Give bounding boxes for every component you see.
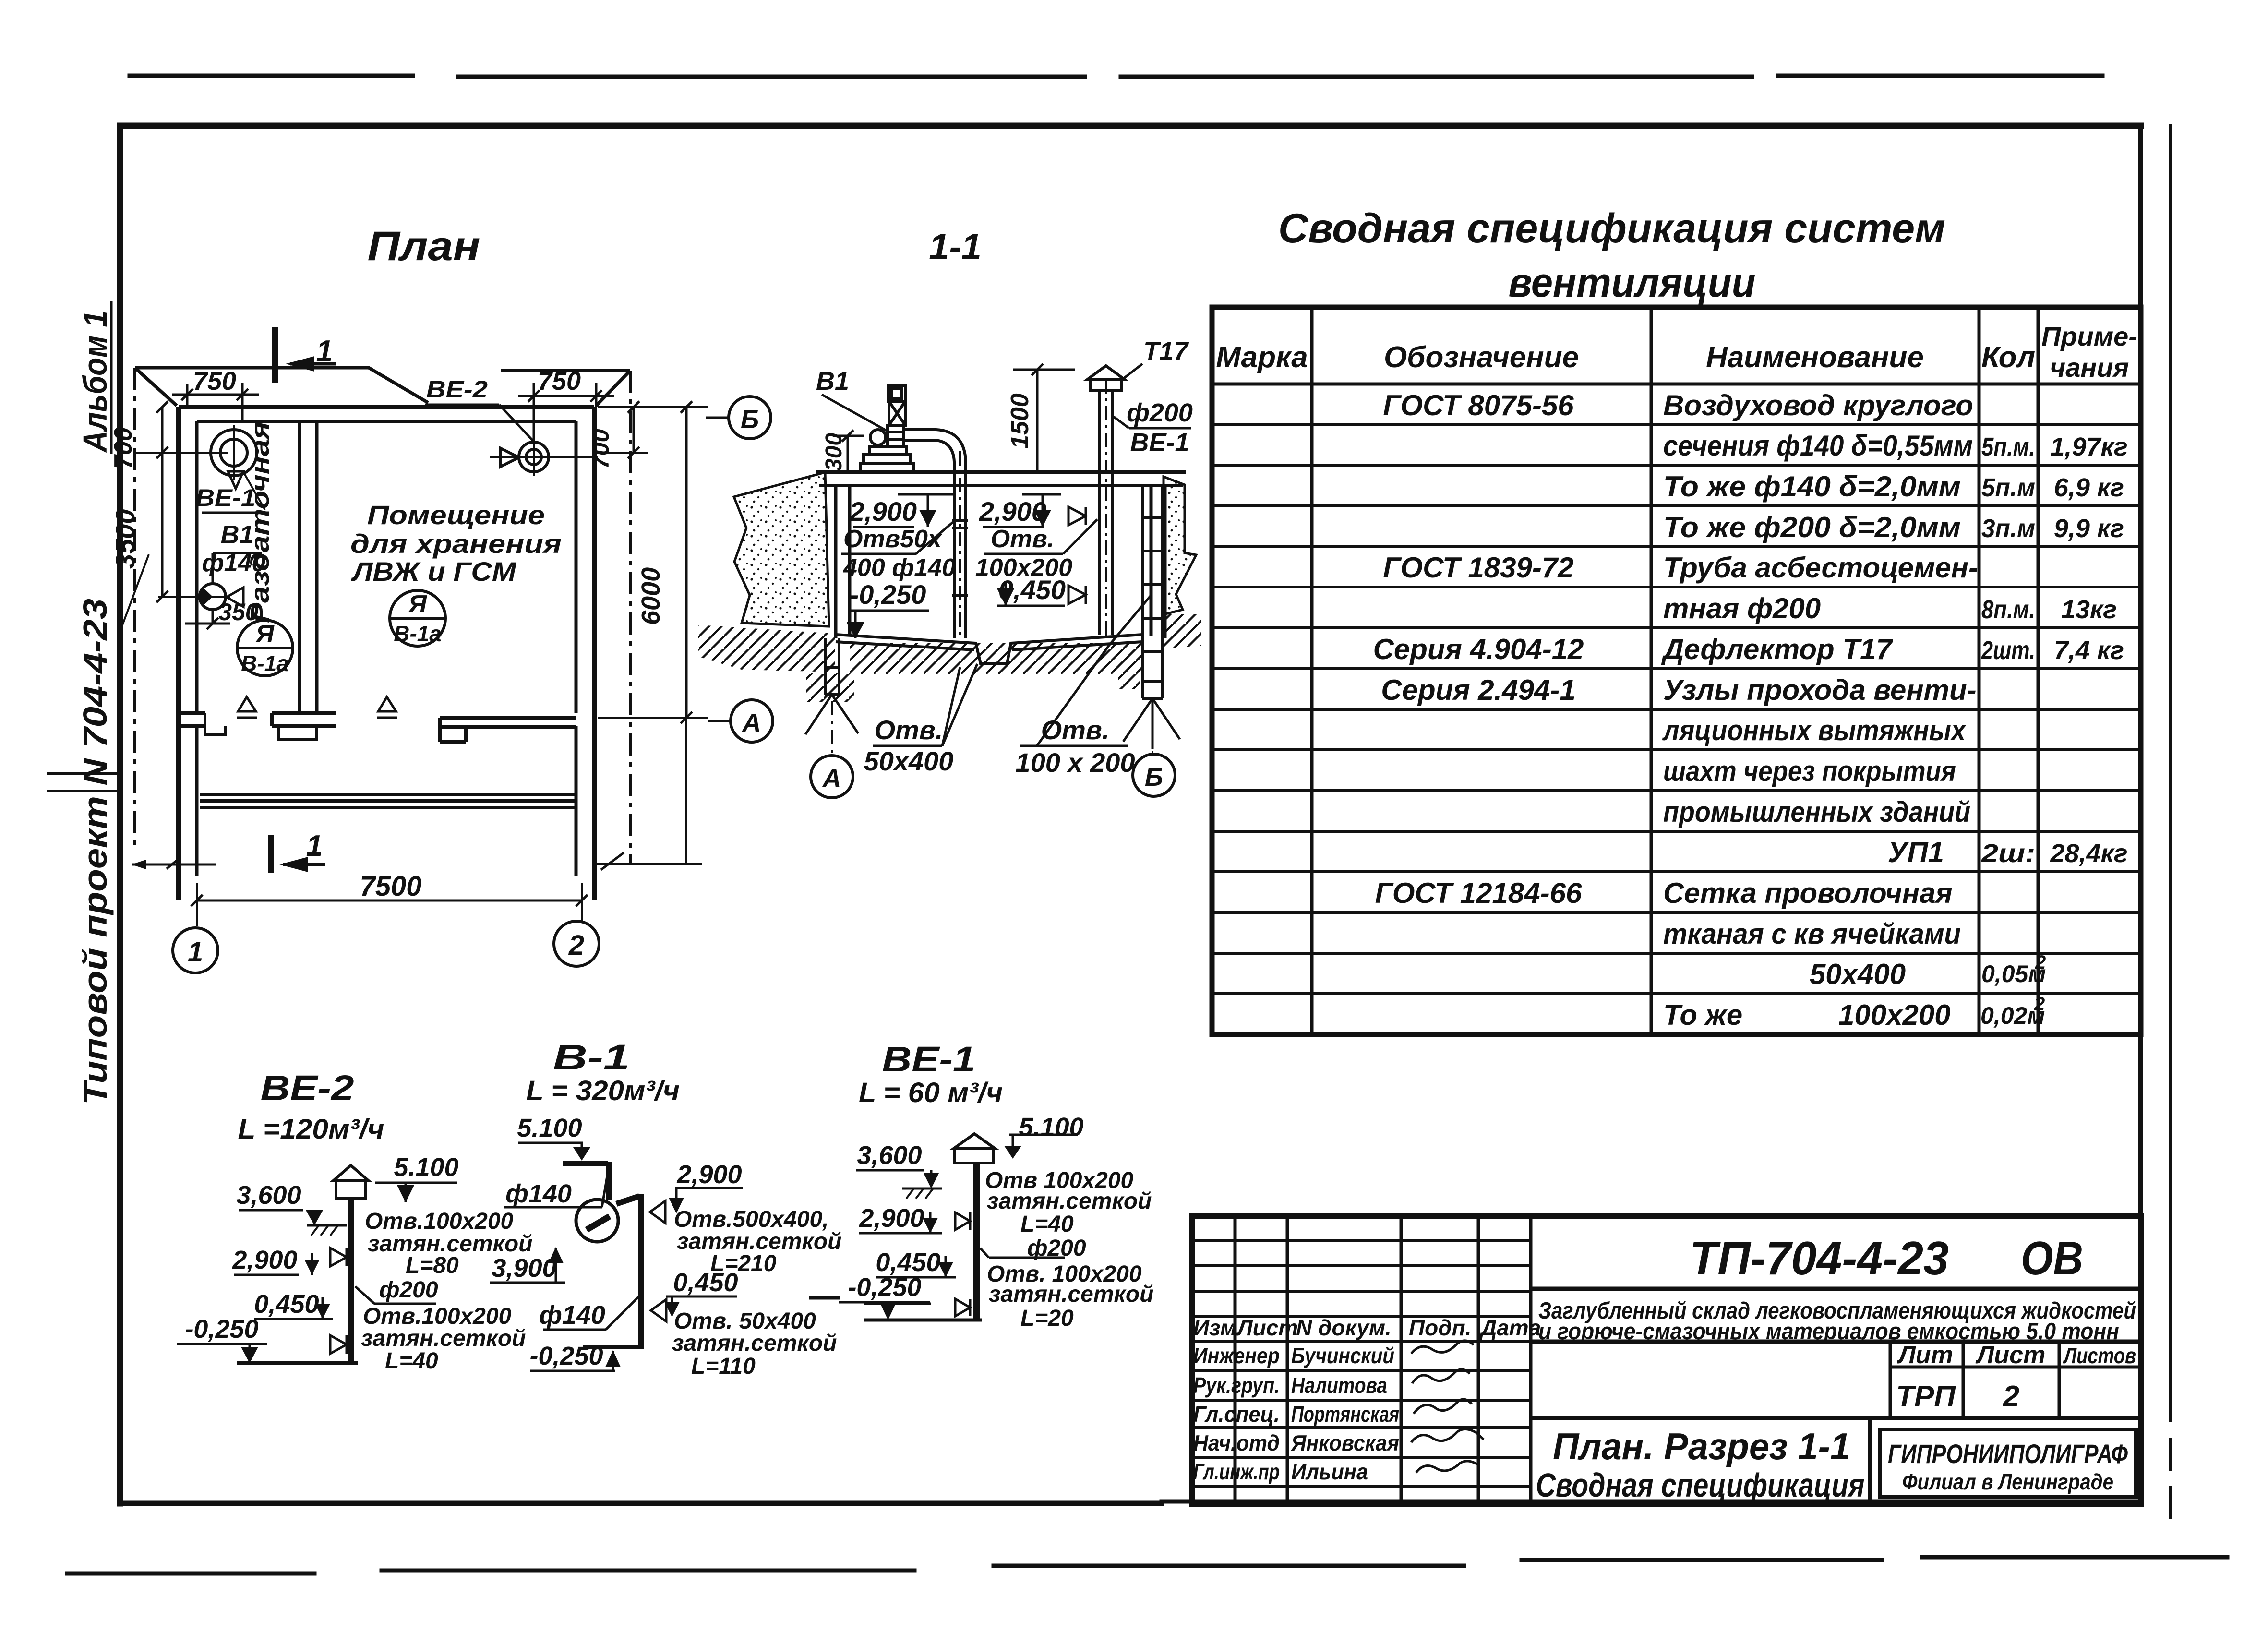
- svg-text:L=80: L=80: [406, 1253, 459, 1278]
- svg-text:ВЕ-1: ВЕ-1: [1130, 428, 1189, 457]
- svg-text:Наименование: Наименование: [1706, 341, 1924, 374]
- svg-text:затян.сеткой: затян.сеткой: [987, 1188, 1152, 1214]
- svg-text:9,9 кг: 9,9 кг: [2054, 514, 2124, 543]
- B-1 fan circle: [576, 1200, 618, 1242]
- svg-text:Узлы прохода венти-: Узлы прохода венти-: [1663, 674, 1977, 706]
- svg-text:3,600: 3,600: [236, 1181, 301, 1210]
- building left wall: [176, 407, 181, 900]
- svg-text:В-1а: В-1а: [394, 621, 442, 646]
- svg-text:Альбом 1: Альбом 1: [76, 311, 114, 453]
- svg-text:2: 2: [2034, 994, 2045, 1015]
- section mark 1 bottom: [268, 835, 274, 873]
- svg-text:Филиал в Ленинграде: Филиал в Ленинграде: [1902, 1469, 2113, 1494]
- TITLEBLOCK group: [1192, 1216, 2141, 1504]
- dimension 7500: [191, 883, 588, 922]
- svg-text:ТРП: ТРП: [1896, 1380, 1956, 1413]
- svg-text:промышленных зданий: промышленных зданий: [1663, 796, 1970, 828]
- svg-text:Гл.инж.пр: Гл.инж.пр: [1193, 1459, 1280, 1484]
- svg-text:Я: Я: [255, 620, 275, 648]
- T17 deflector cap: [1088, 366, 1124, 638]
- left grid rows: [1192, 1241, 1531, 1316]
- svg-text:Воздуховод круглого: Воздуховод круглого: [1663, 389, 1973, 421]
- svg-text:ГОСТ 12184-66: ГОСТ 12184-66: [1375, 877, 1582, 909]
- svg-text:2,900: 2,900: [859, 1204, 924, 1233]
- svg-text:Подп.: Подп.: [1409, 1315, 1472, 1340]
- svg-text:Янковская: Янковская: [1291, 1430, 1399, 1455]
- svg-text:100 х 200: 100 х 200: [1015, 747, 1135, 778]
- svg-text:5.100: 5.100: [517, 1114, 582, 1142]
- svg-text:ляционных вытяжных: ляционных вытяжных: [1662, 714, 1967, 746]
- dimension 700 right: [598, 401, 648, 458]
- 300 dimension: [833, 430, 864, 472]
- svg-text:L=40: L=40: [1020, 1212, 1074, 1237]
- svg-text:Ильина: Ильина: [1291, 1459, 1368, 1484]
- svg-text:750: 750: [193, 367, 236, 396]
- right wall masonry column with pile: [1142, 486, 1163, 698]
- svg-text:7500: 7500: [360, 871, 421, 902]
- svg-text:3п.м: 3п.м: [1981, 514, 2035, 543]
- BE-1 deflector cap: [954, 1134, 995, 1163]
- dimension 3500 left: [156, 453, 230, 602]
- svg-text:вентиляции: вентиляции: [1509, 260, 1756, 306]
- svg-text:7,4 кг: 7,4 кг: [2054, 636, 2124, 665]
- hatch under piles: [806, 673, 854, 702]
- svg-text:Дефлектор Т17: Дефлектор Т17: [1661, 633, 1893, 665]
- axis circle Б top left: [729, 396, 771, 439]
- pit outline chamfers: [135, 368, 630, 406]
- svg-text:L=40: L=40: [385, 1348, 438, 1374]
- svg-text:Отв.: Отв.: [1041, 715, 1110, 745]
- top page-edge dashed line: [130, 76, 2102, 77]
- svg-text:L=110: L=110: [691, 1354, 756, 1379]
- tank bottom with sump: [836, 635, 1142, 664]
- svg-text:ф140: ф140: [505, 1179, 572, 1208]
- svg-text:L = 320м³/ч: L = 320м³/ч: [526, 1075, 680, 1106]
- left embankment (speckled concrete): [734, 472, 829, 626]
- svg-text:0,450: 0,450: [876, 1248, 940, 1277]
- svg-text:В1: В1: [816, 367, 849, 396]
- svg-text:5.100: 5.100: [1019, 1113, 1083, 1141]
- svg-text:Портянская: Портянская: [1291, 1402, 1399, 1427]
- svg-text:Сетка проволочная: Сетка проволочная: [1663, 877, 1953, 909]
- left margin rotated captions: [76, 311, 114, 1105]
- ВЕ-2 vent symbol: [490, 438, 598, 476]
- svg-text:УП1: УП1: [1888, 836, 1944, 868]
- TABLE group: [1212, 205, 2141, 1034]
- svg-text:L =120м³/ч: L =120м³/ч: [238, 1114, 384, 1145]
- svg-text:Инженер: Инженер: [1193, 1343, 1280, 1368]
- BE-2 deflector cap: [333, 1165, 369, 1199]
- bottom page-edge dashed line: [67, 1557, 2227, 1573]
- svg-text:тная ф200: тная ф200: [1663, 592, 1821, 624]
- svg-text:6,9 кг: 6,9 кг: [2054, 473, 2124, 502]
- dimension 750 left: [172, 383, 259, 421]
- svg-text:Помещение: Помещение: [367, 500, 545, 530]
- svg-text:0,450: 0,450: [254, 1290, 319, 1319]
- building right wall: [592, 407, 597, 900]
- svg-text:Отв.100х200: Отв.100х200: [365, 1209, 514, 1234]
- spec table header texts: [1216, 321, 2137, 383]
- svg-text:Отв.: Отв.: [875, 715, 943, 745]
- svg-text:Лист: Лист: [1975, 1341, 2046, 1369]
- tank right wall: [1151, 486, 1165, 638]
- svg-text:0,450: 0,450: [673, 1268, 738, 1297]
- building top wall: [179, 405, 594, 409]
- svg-text:Обозначение: Обозначение: [1384, 341, 1579, 374]
- svg-text:L = 60 м³/ч: L = 60 м³/ч: [859, 1077, 1003, 1108]
- BE-1 riser pipe: [973, 1163, 980, 1320]
- svg-text:То же: То же: [1663, 999, 1742, 1031]
- outer right sheet line: [2169, 126, 2172, 1517]
- svg-text:3,600: 3,600: [857, 1141, 922, 1170]
- Я/В-1а circle right: [390, 590, 445, 646]
- svg-text:750: 750: [538, 367, 581, 396]
- partition wall: [300, 421, 317, 713]
- svg-text:ф200: ф200: [1127, 398, 1193, 427]
- right part horizontal dividers: [1531, 1287, 2141, 1291]
- svg-text:ГОСТ 1839-72: ГОСТ 1839-72: [1383, 552, 1573, 584]
- Я/В-1а circle left: [237, 620, 293, 676]
- dimension 750 right: [518, 383, 614, 442]
- svg-text:1-1: 1-1: [929, 227, 982, 267]
- В1 fan symbol: [199, 584, 243, 624]
- bottom wall segments: [179, 713, 205, 726]
- svg-text:N докум.: N докум.: [1296, 1315, 1392, 1340]
- axis circle А mid left: [731, 700, 773, 742]
- pit outline right dash-dot: [629, 371, 632, 864]
- svg-text:Отв.: Отв.: [991, 525, 1055, 553]
- svg-text:ВЕ-2: ВЕ-2: [426, 376, 488, 403]
- svg-text:шахт через покрытия: шахт через покрытия: [1663, 755, 1956, 787]
- BE-2 bottom line: [237, 1361, 358, 1365]
- svg-text:3,900: 3,900: [492, 1254, 556, 1283]
- svg-text:1,97кг: 1,97кг: [2050, 432, 2127, 461]
- svg-text:5.100: 5.100: [394, 1153, 458, 1182]
- BE-2 riser pipe: [348, 1199, 354, 1363]
- svg-text:700: 700: [587, 429, 614, 469]
- svg-text:ГОСТ 8075-56: ГОСТ 8075-56: [1383, 389, 1574, 421]
- svg-text:ТП-704-4-23: ТП-704-4-23: [1690, 1232, 1949, 1284]
- svg-text:сечения ф140 δ=0,55мм: сечения ф140 δ=0,55мм: [1663, 430, 1973, 462]
- BE-2 right annotations: [361, 1209, 533, 1374]
- svg-text:Типовой проект N 704-4-23: Типовой проект N 704-4-23: [76, 599, 114, 1105]
- left break mark: [122, 554, 149, 625]
- svg-text:Лист: Лист: [1236, 1315, 1298, 1340]
- svg-text:50х400: 50х400: [1810, 958, 1906, 990]
- svg-text:тканая с кв ячейками: тканая с кв ячейками: [1663, 918, 1961, 950]
- section mark 1 top: [272, 327, 278, 383]
- svg-text:Дата: Дата: [1479, 1315, 1541, 1340]
- fold marks left: [48, 774, 120, 791]
- svg-text:2ш:: 2ш:: [1981, 839, 2035, 868]
- svg-text:2: 2: [2035, 952, 2046, 973]
- signatures (squiggles): [1411, 1341, 1484, 1473]
- grid circle 2: [554, 906, 599, 966]
- svg-text:Бучинский: Бучинский: [1291, 1343, 1394, 1368]
- svg-text:ЛВЖ и ГСМ: ЛВЖ и ГСМ: [351, 556, 517, 587]
- svg-text:План: План: [368, 223, 480, 269]
- svg-text:Т17: Т17: [1143, 337, 1189, 366]
- grid circle 1: [173, 906, 218, 973]
- right part vertical dividers: [1889, 1342, 1892, 1418]
- B-1 bottom line: [583, 1345, 644, 1349]
- svg-text:Раздаточная: Раздаточная: [246, 421, 275, 623]
- title block outer box: [1192, 1216, 2141, 1504]
- pipe from pump with elbow: [905, 430, 968, 638]
- svg-text:То же ф140 δ=2,0мм: То же ф140 δ=2,0мм: [1663, 470, 1961, 503]
- svg-text:13кг: 13кг: [2061, 595, 2117, 624]
- svg-text:затян.сеткой: затян.сеткой: [361, 1326, 526, 1351]
- svg-text:700: 700: [109, 427, 137, 469]
- svg-text:Налитова: Налитова: [1291, 1373, 1387, 1398]
- svg-text:Гл.спец.: Гл.спец.: [1193, 1402, 1280, 1427]
- svg-text:6000: 6000: [636, 567, 665, 625]
- svg-text:5п.м: 5п.м: [1981, 473, 2035, 502]
- svg-text:2,900: 2,900: [849, 496, 917, 527]
- svg-text:400 ф140: 400 ф140: [843, 554, 956, 582]
- svg-text:5п.м.: 5п.м.: [1981, 432, 2035, 461]
- right pile crow-foot: [1123, 698, 1180, 749]
- svg-text:для хранения: для хранения: [350, 528, 562, 559]
- svg-text:Сводная спецификация систем: Сводная спецификация систем: [1278, 205, 1945, 252]
- BE-1 right annotations: [985, 1168, 1154, 1331]
- svg-text:А: А: [742, 708, 761, 737]
- svg-text:1: 1: [316, 335, 333, 368]
- svg-text:8п.м.: 8п.м.: [1981, 595, 2035, 624]
- svg-text:ГИПРОНИИПОЛИГРАФ: ГИПРОНИИПОЛИГРАФ: [1888, 1439, 2128, 1469]
- svg-text:Нач.отд: Нач.отд: [1193, 1430, 1280, 1455]
- svg-text:Отв50х: Отв50х: [843, 525, 943, 553]
- svg-text:-0,250: -0,250: [848, 1273, 921, 1302]
- BE-1 bottom line: [809, 1298, 982, 1320]
- sheet frame: [120, 126, 2141, 1503]
- svg-text:ВЕ-1: ВЕ-1: [882, 1039, 976, 1079]
- ВЕ-1 vent symbol: [211, 425, 265, 510]
- B-1 riser with elbow and fan: [563, 1162, 641, 1347]
- door swing triangles: [237, 697, 397, 718]
- B1 pump assembly: [860, 386, 913, 472]
- svg-text:То же ф200 δ=2,0мм: То же ф200 δ=2,0мм: [1663, 511, 1961, 543]
- svg-text:28,4кг: 28,4кг: [2050, 839, 2127, 868]
- svg-text:Лит: Лит: [1896, 1341, 1953, 1369]
- svg-text:Сводная спецификация: Сводная спецификация: [1536, 1466, 1865, 1504]
- svg-text:3500: 3500: [110, 509, 140, 569]
- svg-text:2,900: 2,900: [232, 1246, 297, 1274]
- svg-text:Б: Б: [741, 405, 759, 434]
- svg-text:В-1а: В-1а: [241, 651, 289, 676]
- left signature grid verticals: [1235, 1216, 1531, 1504]
- lit/list/listov: [1896, 1341, 2136, 1413]
- svg-text:Серия 2.494-1: Серия 2.494-1: [1381, 674, 1576, 706]
- svg-text:1: 1: [306, 829, 323, 863]
- svg-text:затян.сеткой: затян.сеткой: [989, 1282, 1154, 1307]
- svg-text:-0,250: -0,250: [185, 1315, 258, 1344]
- svg-text:Приме-: Приме-: [2041, 321, 2137, 351]
- svg-text:В-1: В-1: [553, 1037, 630, 1077]
- svg-text:Кол: Кол: [1981, 341, 2035, 374]
- svg-text:ф200: ф200: [379, 1277, 438, 1303]
- svg-text:План. Разрез 1-1: План. Разрез 1-1: [1553, 1425, 1850, 1467]
- dimension 700 left: [135, 401, 228, 458]
- svg-text:Б: Б: [1145, 763, 1163, 792]
- svg-text:А: А: [822, 764, 841, 793]
- left pile: [805, 638, 858, 734]
- svg-text:Серия 4.904-12: Серия 4.904-12: [1373, 633, 1584, 665]
- svg-text:затян.сеткой: затян.сеткой: [672, 1331, 837, 1356]
- dimension 350: [185, 609, 230, 629]
- svg-text:Изм: Изм: [1193, 1315, 1236, 1340]
- tank cover slab: [816, 470, 1186, 474]
- svg-text:ОВ: ОВ: [2021, 1232, 2083, 1284]
- svg-text:L=20: L=20: [1020, 1306, 1074, 1331]
- svg-text:чания: чания: [2050, 352, 2129, 383]
- PLAN group: [109, 223, 708, 973]
- svg-text:100х200: 100х200: [1838, 999, 1951, 1031]
- svg-text:2,900: 2,900: [676, 1160, 742, 1189]
- svg-text:2шт.: 2шт.: [1981, 636, 2035, 665]
- svg-text:1500: 1500: [1006, 393, 1034, 449]
- svg-text:Я: Я: [408, 590, 427, 618]
- axis circle А bottom: [831, 701, 833, 755]
- spec table rows: [1373, 389, 2128, 1031]
- svg-text:ВЕ-2: ВЕ-2: [261, 1068, 354, 1108]
- signature grid labels: [1193, 1315, 1541, 1484]
- svg-text:300: 300: [821, 433, 847, 471]
- tank left wall: [836, 486, 850, 638]
- svg-text:Листов: Листов: [2063, 1343, 2136, 1368]
- pit outline top: [135, 368, 630, 403]
- svg-text:2: 2: [2003, 1380, 2019, 1413]
- SCHEMES group: [177, 1037, 1154, 1379]
- svg-text:2: 2: [568, 930, 584, 961]
- svg-text:50х400: 50х400: [864, 746, 954, 776]
- svg-text:Труба асбестоцемен-: Труба асбестоцемен-: [1663, 552, 1978, 584]
- svg-text:и горюче-смазочных материалов: и горюче-смазочных материалов емкостью 5…: [1538, 1319, 2119, 1344]
- svg-text:1: 1: [188, 936, 203, 968]
- right embankment: [1164, 477, 1196, 614]
- ground hatch band: [698, 625, 835, 672]
- 1500 dimension: [1013, 364, 1075, 472]
- dimension 6000 right: [595, 401, 708, 870]
- SECTION group: [698, 227, 1201, 798]
- spec table grid: [1212, 307, 2141, 1034]
- pit outline left dash-dot: [133, 368, 136, 851]
- axis circle Б bottom: [1152, 702, 1153, 754]
- svg-text:ф140: ф140: [539, 1301, 605, 1330]
- svg-text:-0,250: -0,250: [850, 579, 926, 610]
- loading platform edge triple line: [200, 793, 575, 796]
- svg-text:Рук.груп.: Рук.груп.: [1193, 1373, 1280, 1398]
- svg-text:Марка: Марка: [1216, 341, 1308, 374]
